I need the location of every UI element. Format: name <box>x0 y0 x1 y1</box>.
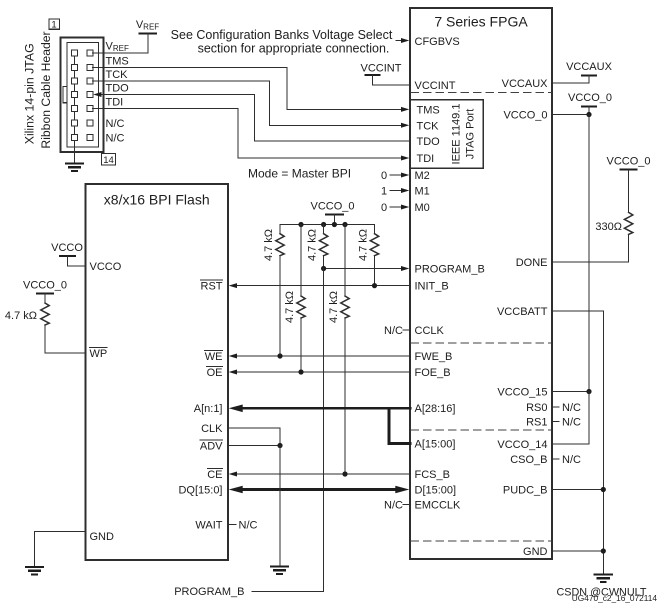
ground (flash) <box>26 567 43 574</box>
svg-text:RS1: RS1 <box>526 417 547 429</box>
power VCCINT symbol <box>361 63 402 76</box>
overline WP <box>90 347 108 349</box>
header pads column 1 <box>72 50 78 141</box>
svg-text:GND: GND <box>90 531 115 543</box>
wire TDI header to FPGA <box>93 109 405 159</box>
svg-text:GND: GND <box>523 546 548 558</box>
connector key notch <box>63 86 67 102</box>
overline RST <box>201 279 223 281</box>
FPGA internal dashed separator 4 <box>411 540 551 542</box>
svg-text:0: 0 <box>381 170 387 182</box>
junction VCCO_15 <box>586 389 591 394</box>
svg-text:4.7 kΩ: 4.7 kΩ <box>307 229 319 261</box>
svg-text:UG470_c2_16_072114: UG470_c2_16_072114 <box>572 593 658 603</box>
arrow TDI into FPGA <box>401 156 409 161</box>
svg-text:VCCO: VCCO <box>90 261 122 273</box>
ground (header) <box>66 164 83 171</box>
junction FCS_B pull-up <box>342 471 347 476</box>
svg-text:VCCO_0: VCCO_0 <box>568 92 612 104</box>
wire FWE_B FPGA to flash WE <box>234 355 410 357</box>
svg-text:TMS: TMS <box>106 56 129 68</box>
svg-text:FWE_B: FWE_B <box>415 351 453 363</box>
wire WP pull-up to flash <box>45 325 86 353</box>
wire DONE to pull-up <box>552 234 629 262</box>
junction PROGRAM_B net <box>321 266 326 271</box>
svg-text:VCCAUX: VCCAUX <box>502 78 549 90</box>
svg-text:Xilinx 14-pin JTAG: Xilinx 14-pin JTAG <box>22 43 36 144</box>
arrow INIT_B into flash RST <box>229 283 237 288</box>
overline ADV <box>200 439 223 441</box>
svg-text:CCLK: CCLK <box>415 325 445 337</box>
wire rail to VCCO_14 <box>552 392 589 445</box>
header left pin bus wire to ground <box>74 53 76 163</box>
svg-text:N/C: N/C <box>106 133 125 145</box>
junction VCCO_0 <box>586 112 591 117</box>
wire CLK to ground net <box>228 428 280 446</box>
svg-text:x8/x16 BPI Flash: x8/x16 BPI Flash <box>104 192 210 208</box>
overline OE <box>207 366 223 368</box>
svg-text:N/C: N/C <box>562 454 581 466</box>
svg-text:N/C: N/C <box>384 500 403 512</box>
wire note arrow to CFGBVS <box>396 40 404 42</box>
svg-text:A[15:00]: A[15:00] <box>415 439 456 451</box>
svg-text:DQ[15:0]: DQ[15:0] <box>178 484 222 496</box>
svg-text:M2: M2 <box>415 170 430 182</box>
junction PUDC_B <box>601 487 606 492</box>
wire VCCO_15 <box>552 391 589 393</box>
flash U2 box <box>86 184 229 560</box>
wire flash GND to ground <box>35 532 86 567</box>
wire VCCO_0 rail down to VCCO_15/VCCO_14 <box>588 115 590 392</box>
header rotated name text <box>22 31 53 148</box>
bus A[28:16] to flash A[n:1] <box>241 408 410 443</box>
svg-text:M0: M0 <box>415 202 430 214</box>
junction rail-VCCO_0 stem <box>332 222 337 227</box>
svg-text:CFGBVS: CFGBVS <box>415 36 460 48</box>
wire VCCO_0 pin <box>552 114 589 116</box>
resistor R5 4.7k pull-up INIT_B <box>358 225 379 286</box>
wire FOE_B FPGA to flash OE <box>234 371 410 373</box>
bus D[15:00] to flash DQ[15:0] <box>241 488 397 491</box>
N/C label EMCCLK <box>384 500 410 512</box>
svg-text:VCCBATT: VCCBATT <box>497 306 548 318</box>
arrow FOE_B into flash OE <box>229 370 237 375</box>
svg-text:TCK: TCK <box>106 69 129 81</box>
svg-text:14: 14 <box>103 155 114 166</box>
svg-text:EMCCLK: EMCCLK <box>415 500 462 512</box>
arrow bus D into FPGA <box>395 486 409 494</box>
junction INIT_B pull-up <box>372 283 377 288</box>
wire PROGRAM_B pull-up to FPGA <box>324 268 404 270</box>
svg-text:4.7 kΩ: 4.7 kΩ <box>263 229 275 261</box>
svg-text:Ribbon Cable Header: Ribbon Cable Header <box>39 31 53 148</box>
power VCCO_0 symbol for DONE pull-up <box>606 156 650 213</box>
wire TCK header to FPGA <box>93 81 405 125</box>
wire VCCAUX <box>552 82 589 84</box>
svg-text:WP: WP <box>90 348 108 360</box>
svg-text:VCCO: VCCO <box>51 242 83 254</box>
FPGA left pin labels <box>415 36 485 512</box>
wire TDO FPGA to header <box>101 95 410 142</box>
ground (CLK/ADV) <box>271 567 288 574</box>
M1 constant 1 <box>381 186 409 198</box>
arrow FCS_B into flash CE <box>229 472 237 477</box>
arrow FWE_B into flash WE <box>229 354 237 359</box>
FPGA U1 box <box>410 8 552 559</box>
svg-text:TMS: TMS <box>417 104 440 116</box>
svg-text:4.7 kΩ: 4.7 kΩ <box>358 229 370 261</box>
svg-text:section for appropriate connec: section for appropriate connection. <box>198 42 390 56</box>
wire VCCINT to FPGA <box>373 75 411 85</box>
header pin labels <box>106 41 130 145</box>
arrow into CFGBVS <box>401 38 409 43</box>
svg-text:TDO: TDO <box>417 136 441 148</box>
svg-text:VCCAUX: VCCAUX <box>566 61 613 73</box>
wire VREF header pin <box>93 52 148 54</box>
svg-text:N/C: N/C <box>562 417 581 429</box>
N/C label RS1 <box>552 417 581 429</box>
overline CE <box>208 468 223 470</box>
svg-text:Mode = Master BPI: Mode = Master BPI <box>248 167 351 181</box>
junction FOE_B pull-up <box>298 369 303 374</box>
svg-text:330Ω: 330Ω <box>595 221 622 233</box>
svg-text:A[28:16]: A[28:16] <box>415 403 456 415</box>
arrow bus D into flash <box>229 486 243 494</box>
connector J1 Xilinx 14-pin JTAG header outer box <box>61 38 104 153</box>
svg-text:FOE_B: FOE_B <box>415 367 451 379</box>
svg-text:N/C: N/C <box>384 325 403 337</box>
resistor R6 330 ohm DONE pull-up <box>595 212 632 234</box>
arrow bus A into flash <box>229 405 243 413</box>
wire TMS header to FPGA <box>93 68 405 110</box>
svg-text:1: 1 <box>381 186 387 198</box>
flash left pin labels <box>90 261 122 543</box>
svg-text:CLK: CLK <box>201 423 223 435</box>
resistor R1 4.7k pull-up FWE_B <box>263 225 284 357</box>
wire VCCO pin <box>67 265 85 267</box>
wire FCS_B FPGA to flash CE <box>234 473 410 475</box>
header pads column 2 <box>87 50 93 141</box>
junction rail-R4 <box>342 222 347 227</box>
N/C label RS0 <box>552 402 581 414</box>
flash right pin labels <box>178 281 223 532</box>
svg-text:IEEE 1149.1: IEEE 1149.1 <box>451 104 463 165</box>
power VREF symbol <box>136 19 159 53</box>
svg-text:TDI: TDI <box>417 153 435 165</box>
pin 1 label <box>49 19 60 31</box>
junction rail-R2 <box>298 222 303 227</box>
ground (FPGA right) <box>595 575 612 582</box>
pull-up rail wire <box>280 224 375 226</box>
wire CLK/ADV down to ground <box>279 446 281 566</box>
svg-text:RS0: RS0 <box>526 402 547 414</box>
svg-text:N/C: N/C <box>106 118 125 130</box>
power VCCAUX symbol <box>566 61 613 83</box>
resistor R2 4.7k pull-up FOE_B <box>284 225 305 373</box>
FPGA internal dashed separator 1 <box>411 92 551 94</box>
IEEE 1149.1 JTAG Port sub-box <box>410 100 483 169</box>
svg-text:TDI: TDI <box>106 97 124 109</box>
FPGA internal dashed separator 2 <box>411 342 551 344</box>
wire PROGRAM_B net down to label <box>252 269 324 592</box>
svg-text:VCCO_0: VCCO_0 <box>23 280 67 292</box>
svg-text:WAIT: WAIT <box>195 520 222 532</box>
svg-text:VCCO_0: VCCO_0 <box>310 201 354 213</box>
svg-text:PUDC_B: PUDC_B <box>503 485 548 497</box>
N/C label WAIT <box>228 520 258 532</box>
svg-text:PROGRAM_B: PROGRAM_B <box>415 264 485 276</box>
wire PUDC_B to net <box>552 489 603 491</box>
resistor R4 4.7k pull-up FCS_B <box>328 225 349 475</box>
power VCCO_0 symbol above pull-up rail <box>310 201 354 225</box>
svg-text:VCCO_0: VCCO_0 <box>606 156 650 168</box>
svg-text:PROGRAM_B: PROGRAM_B <box>174 586 244 598</box>
svg-text:TCK: TCK <box>417 120 440 132</box>
svg-text:OE: OE <box>207 367 223 379</box>
resistor R7 4.7k WP pull-up <box>5 303 49 325</box>
svg-text:VCCINT: VCCINT <box>361 63 402 75</box>
note text configuration banks <box>171 28 393 56</box>
svg-text:VCCO_14: VCCO_14 <box>497 439 547 451</box>
svg-text:RST: RST <box>201 281 223 293</box>
N/C label CSO_B <box>552 454 581 466</box>
svg-text:INIT_B: INIT_B <box>415 281 449 293</box>
svg-text:4.7 kΩ: 4.7 kΩ <box>328 291 340 323</box>
svg-text:M1: M1 <box>415 186 430 198</box>
svg-text:4.7 kΩ: 4.7 kΩ <box>284 291 296 323</box>
power VCCO_0 symbol WP pull-up <box>23 280 67 304</box>
svg-text:1: 1 <box>51 20 56 31</box>
svg-text:VCCINT: VCCINT <box>415 80 456 92</box>
power VCCO_0 symbol right <box>568 92 612 115</box>
svg-text:DONE: DONE <box>516 257 548 269</box>
junction GND <box>601 548 606 553</box>
M0 constant 0 <box>381 202 409 214</box>
svg-text:CSO_B: CSO_B <box>510 454 547 466</box>
junction FWE_B pull-up <box>277 353 282 358</box>
M2 constant 0 <box>381 170 409 182</box>
arrow PROGRAM_B into FPGA <box>401 266 409 271</box>
wire VCCBATT tied low <box>552 311 603 574</box>
power VCCO symbol flash <box>51 242 83 266</box>
svg-text:VCCO_15: VCCO_15 <box>497 387 547 399</box>
svg-text:CE: CE <box>207 469 222 481</box>
svg-text:VCCO_0: VCCO_0 <box>503 110 547 122</box>
overline WE <box>205 350 223 352</box>
arrow TDO into header <box>93 92 101 97</box>
N/C label CCLK <box>384 325 410 337</box>
svg-text:7 Series FPGA: 7 Series FPGA <box>434 14 528 30</box>
svg-text:WE: WE <box>205 351 223 363</box>
svg-text:TDO: TDO <box>106 83 130 95</box>
svg-text:N/C: N/C <box>239 520 258 532</box>
svg-text:ADV: ADV <box>200 441 223 453</box>
FPGA right pin labels <box>497 78 548 558</box>
svg-text:D[15:00]: D[15:00] <box>415 484 457 496</box>
svg-text:A[n:1]: A[n:1] <box>194 403 223 415</box>
svg-text:FCS_B: FCS_B <box>415 469 450 481</box>
svg-text:N/C: N/C <box>562 402 581 414</box>
pin 14 label <box>102 154 116 166</box>
svg-text:0: 0 <box>381 202 387 214</box>
arrow TCK into FPGA <box>401 123 409 128</box>
wire INIT_B FPGA to flash RST <box>234 285 410 287</box>
resistor R3 4.7k pull-up PROGRAM_B <box>307 225 328 269</box>
junction CLK-ADV <box>277 443 282 448</box>
junction rail-R3 <box>321 222 326 227</box>
svg-text:4.7 kΩ: 4.7 kΩ <box>5 310 37 322</box>
FPGA internal dashed separator 3 <box>411 429 551 431</box>
svg-text:JTAG Port: JTAG Port <box>465 109 477 160</box>
svg-text:See Configuration Banks Voltag: See Configuration Banks Voltage Select <box>171 28 393 42</box>
arrow TMS into FPGA <box>401 107 409 112</box>
wire ADV to ground net <box>228 445 280 447</box>
wire GND pin to net <box>552 550 603 552</box>
